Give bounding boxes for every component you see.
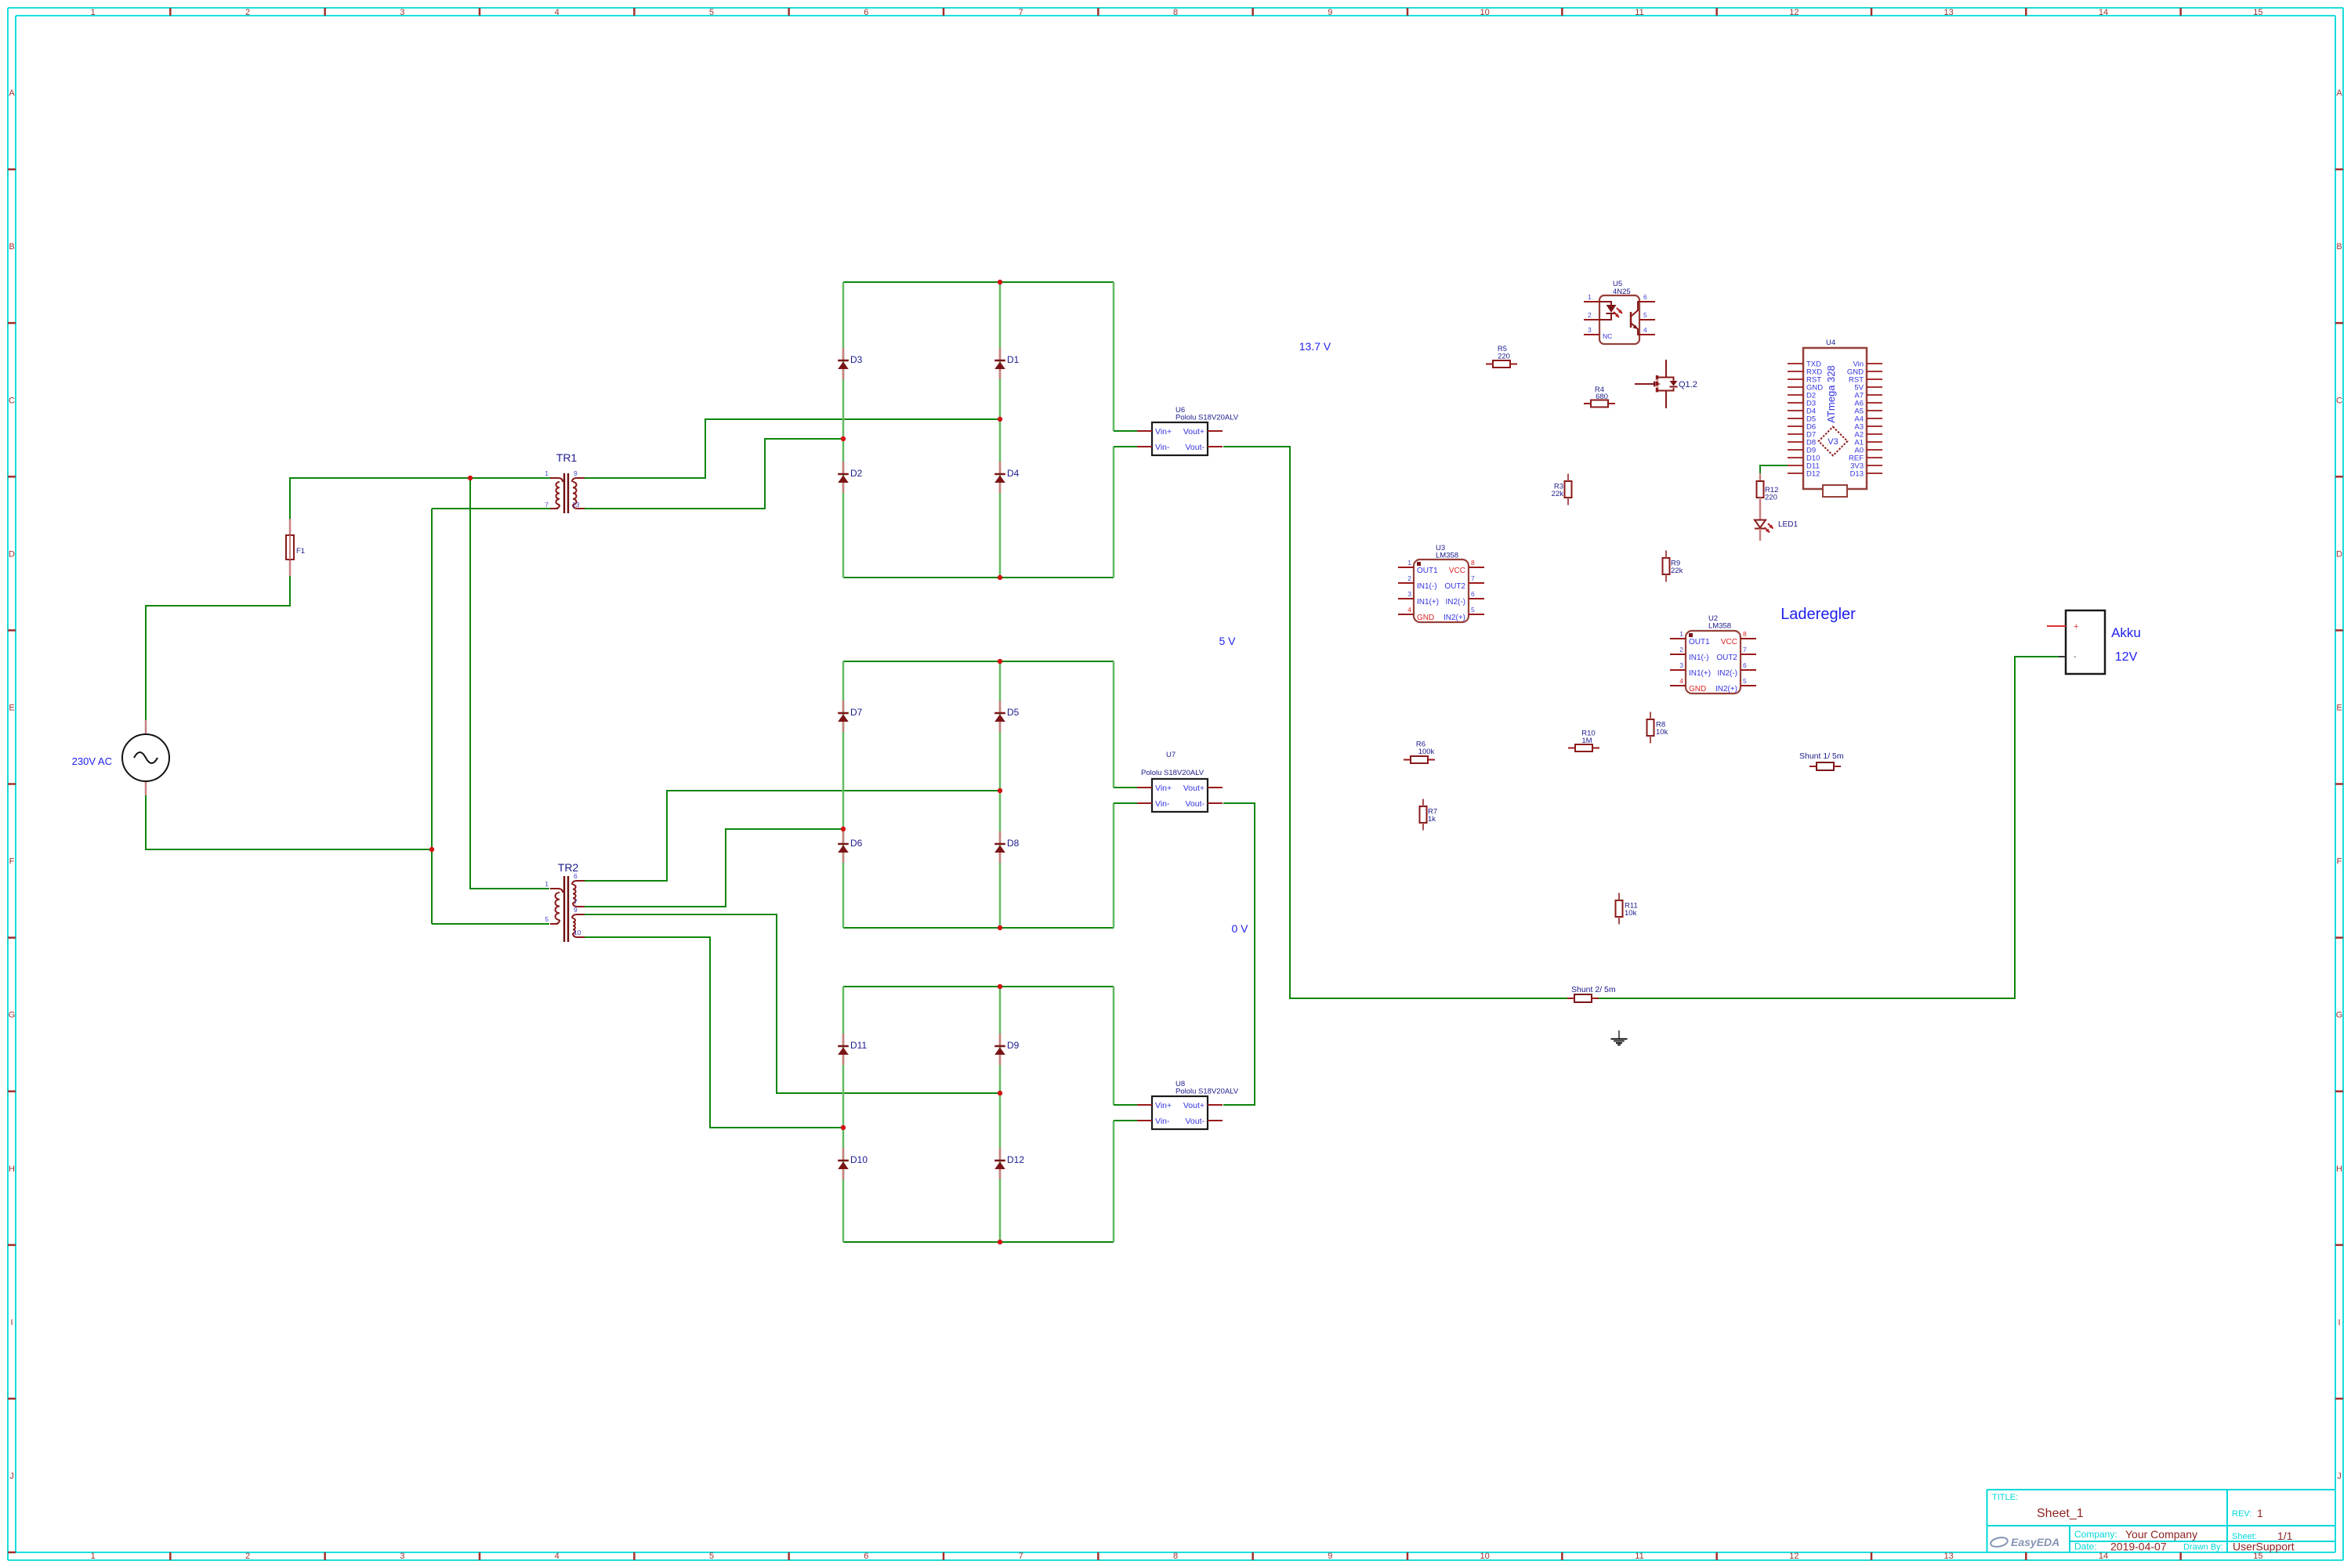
svg-text:7: 7 (1019, 1552, 1023, 1561)
svg-text:230V AC: 230V AC (72, 755, 112, 767)
svg-text:LED1: LED1 (1778, 520, 1798, 529)
svg-text:11: 11 (1635, 8, 1643, 17)
svg-text:Company:: Company: (2074, 1529, 2117, 1540)
svg-text:D: D (2336, 549, 2342, 559)
svg-text:C: C (9, 396, 15, 405)
svg-text:11: 11 (1635, 1552, 1643, 1561)
svg-text:14: 14 (2099, 1552, 2108, 1561)
svg-text:U7: U7 (1166, 751, 1175, 759)
svg-text:8: 8 (1173, 8, 1178, 17)
svg-text:D12: D12 (1806, 470, 1820, 479)
svg-text:Pololu S18V20ALV: Pololu S18V20ALV (1141, 769, 1204, 777)
svg-text:G: G (2336, 1011, 2343, 1020)
svg-text:D10: D10 (850, 1154, 868, 1165)
svg-text:H: H (2336, 1164, 2342, 1174)
svg-text:15: 15 (2253, 1552, 2262, 1561)
svg-text:U4: U4 (1826, 339, 1835, 347)
svg-text:D11: D11 (850, 1040, 867, 1051)
svg-text:5 V: 5 V (1219, 635, 1236, 647)
svg-text:F1: F1 (296, 547, 305, 556)
svg-text:D12: D12 (1007, 1154, 1024, 1165)
svg-text:-: - (2074, 653, 2076, 661)
svg-text:22k: 22k (1671, 567, 1683, 575)
svg-text:5: 5 (1471, 606, 1475, 614)
svg-text:Vout-: Vout- (1185, 1117, 1204, 1126)
svg-text:D7: D7 (850, 707, 863, 718)
svg-text:B: B (9, 242, 14, 252)
svg-text:13: 13 (1944, 1552, 1954, 1561)
svg-text:5: 5 (1743, 677, 1747, 685)
svg-text:IN2(+): IN2(+) (1715, 685, 1737, 693)
svg-text:2: 2 (245, 1552, 250, 1561)
svg-text:LM358: LM358 (1436, 552, 1458, 560)
svg-text:OUT1: OUT1 (1689, 638, 1710, 646)
svg-text:Vout-: Vout- (1185, 799, 1204, 809)
svg-text:D9: D9 (1007, 1040, 1020, 1051)
svg-text:IN2(-): IN2(-) (1717, 669, 1737, 678)
svg-text:9: 9 (1328, 1552, 1332, 1561)
svg-text:NC: NC (1603, 332, 1612, 340)
svg-text:1: 1 (2257, 1507, 2263, 1519)
svg-text:Laderegler: Laderegler (1780, 606, 1856, 623)
svg-text:7: 7 (1471, 574, 1475, 582)
svg-text:4: 4 (555, 1552, 560, 1561)
svg-text:ATmega 328: ATmega 328 (1825, 365, 1837, 422)
svg-text:LM358: LM358 (1708, 622, 1731, 631)
svg-text:14: 14 (2099, 8, 2108, 17)
svg-text:13: 13 (572, 501, 580, 509)
svg-text:OUT2: OUT2 (1716, 654, 1737, 662)
svg-text:6: 6 (864, 8, 868, 17)
svg-text:12: 12 (1789, 8, 1799, 17)
svg-text:4N25: 4N25 (1613, 288, 1631, 296)
svg-text:GND: GND (1417, 614, 1434, 622)
svg-text:3: 3 (1679, 661, 1683, 669)
svg-text:5: 5 (709, 1552, 714, 1561)
svg-text:D4: D4 (1007, 468, 1020, 479)
svg-text:E: E (2336, 703, 2342, 712)
svg-text:6: 6 (1643, 293, 1647, 301)
svg-text:I: I (2338, 1318, 2340, 1327)
svg-text:F: F (2337, 857, 2342, 867)
svg-text:4: 4 (555, 8, 560, 17)
svg-text:D6: D6 (850, 838, 863, 849)
svg-text:UserSupport: UserSupport (2233, 1541, 2295, 1553)
svg-text:8: 8 (1743, 630, 1747, 638)
svg-text:D2: D2 (850, 468, 863, 479)
svg-text:IN1(+): IN1(+) (1417, 598, 1439, 607)
svg-text:6: 6 (1743, 661, 1747, 669)
svg-text:Pololu S18V20ALV: Pololu S18V20ALV (1175, 414, 1239, 422)
svg-text:D: D (9, 549, 15, 559)
svg-text:OUT1: OUT1 (1417, 567, 1438, 575)
svg-text:Vout+: Vout+ (1183, 1101, 1204, 1110)
svg-text:220: 220 (1498, 353, 1510, 361)
svg-text:7: 7 (1743, 646, 1747, 654)
svg-text:7: 7 (574, 898, 578, 906)
svg-text:Vin-: Vin- (1155, 799, 1170, 809)
svg-text:1: 1 (1407, 559, 1411, 567)
svg-text:3: 3 (1588, 326, 1592, 334)
svg-text:D1: D1 (1007, 354, 1020, 365)
svg-text:0 V: 0 V (1231, 922, 1248, 935)
svg-text:+: + (2074, 622, 2078, 632)
svg-text:B: B (2336, 242, 2342, 252)
svg-text:Vin+: Vin+ (1155, 427, 1172, 436)
svg-text:IN1(+): IN1(+) (1689, 669, 1711, 678)
svg-text:1k: 1k (1428, 815, 1436, 824)
svg-text:Pololu S18V20ALV: Pololu S18V20ALV (1175, 1088, 1239, 1096)
svg-text:D8: D8 (1007, 838, 1020, 849)
svg-text:Akku: Akku (2111, 625, 2141, 640)
svg-text:Vin-: Vin- (1155, 443, 1170, 452)
svg-text:VCC: VCC (1721, 638, 1737, 646)
svg-text:Sheet_1: Sheet_1 (2037, 1507, 2084, 1520)
svg-text:VCC: VCC (1449, 567, 1465, 575)
svg-text:Vout-: Vout- (1185, 443, 1204, 452)
svg-text:4: 4 (1407, 606, 1411, 614)
svg-text:6: 6 (864, 1552, 868, 1561)
svg-text:C: C (2336, 396, 2342, 405)
svg-text:4: 4 (1643, 326, 1647, 334)
svg-text:Your Company: Your Company (2125, 1528, 2197, 1541)
svg-text:1: 1 (91, 8, 96, 17)
svg-text:12: 12 (1789, 1552, 1799, 1561)
svg-text:680: 680 (1596, 393, 1608, 401)
svg-text:Vin+: Vin+ (1155, 1101, 1172, 1110)
svg-text:IN1(-): IN1(-) (1417, 582, 1437, 591)
svg-text:Shunt 2/ 5m: Shunt 2/ 5m (1571, 985, 1616, 994)
svg-text:TITLE:: TITLE: (1992, 1493, 2018, 1502)
svg-text:A: A (2336, 89, 2342, 98)
svg-text:10: 10 (1480, 8, 1490, 17)
svg-text:3: 3 (400, 1552, 404, 1561)
svg-text:E: E (9, 703, 14, 712)
svg-text:7: 7 (1019, 8, 1023, 17)
svg-text:D3: D3 (850, 354, 863, 365)
svg-text:A: A (9, 89, 15, 98)
svg-text:1: 1 (545, 880, 549, 888)
svg-text:8: 8 (1471, 559, 1475, 567)
svg-text:15: 15 (2253, 8, 2262, 17)
svg-text:V3: V3 (1828, 437, 1838, 447)
svg-text:10k: 10k (1625, 909, 1637, 918)
svg-text:Date:: Date: (2074, 1541, 2097, 1552)
svg-text:5: 5 (545, 915, 549, 923)
svg-text:TR1: TR1 (556, 451, 578, 464)
svg-text:Drawn By:: Drawn By: (2183, 1543, 2223, 1552)
svg-text:H: H (9, 1164, 15, 1174)
svg-text:Q1.2: Q1.2 (1679, 380, 1697, 389)
svg-text:12V: 12V (2115, 650, 2138, 664)
svg-text:IN2(+): IN2(+) (1444, 614, 1465, 622)
svg-text:J: J (9, 1472, 14, 1481)
svg-text:2: 2 (1679, 646, 1683, 654)
svg-text:1: 1 (1588, 293, 1592, 301)
svg-text:Vin-: Vin- (1155, 1117, 1170, 1126)
svg-text:7: 7 (545, 501, 549, 509)
svg-text:100k: 100k (1418, 748, 1435, 756)
svg-text:D13: D13 (1850, 470, 1864, 479)
svg-text:G: G (9, 1011, 16, 1020)
svg-text:9: 9 (574, 469, 578, 477)
svg-text:9: 9 (574, 906, 578, 914)
svg-text:Vin+: Vin+ (1155, 784, 1172, 793)
svg-text:10k: 10k (1656, 728, 1668, 737)
svg-text:6: 6 (574, 872, 578, 880)
svg-text:10: 10 (574, 929, 581, 936)
svg-text:3: 3 (1407, 590, 1411, 598)
svg-text:REV:: REV: (2232, 1509, 2251, 1519)
svg-text:1: 1 (1679, 630, 1683, 638)
svg-text:13.7 V: 13.7 V (1299, 340, 1331, 353)
svg-text:4: 4 (1679, 677, 1683, 685)
svg-text:OUT2: OUT2 (1444, 582, 1465, 591)
svg-text:9: 9 (1328, 8, 1332, 17)
svg-text:Vout+: Vout+ (1183, 784, 1204, 793)
svg-text:3: 3 (400, 8, 404, 17)
svg-text:IN1(-): IN1(-) (1689, 654, 1709, 662)
svg-text:5: 5 (1643, 311, 1647, 319)
svg-text:1: 1 (545, 469, 549, 477)
svg-text:F: F (9, 857, 15, 867)
svg-text:Shunt 1/ 5m: Shunt 1/ 5m (1799, 751, 1844, 761)
svg-text:2: 2 (1407, 574, 1411, 582)
svg-text:10: 10 (1480, 1552, 1490, 1561)
svg-text:5: 5 (709, 8, 714, 17)
svg-text:220: 220 (1765, 494, 1777, 502)
svg-text:1: 1 (91, 1552, 96, 1561)
svg-text:6: 6 (1471, 590, 1475, 598)
svg-text:J: J (2337, 1472, 2342, 1481)
svg-text:2: 2 (1588, 311, 1592, 319)
svg-text:D5: D5 (1007, 707, 1020, 718)
svg-text:Vout+: Vout+ (1183, 427, 1204, 436)
svg-text:2019-04-07: 2019-04-07 (2110, 1541, 2167, 1553)
svg-text:8: 8 (1173, 1552, 1178, 1561)
svg-text:EasyEDA: EasyEDA (2011, 1536, 2059, 1548)
svg-text:1M: 1M (1581, 737, 1592, 745)
svg-text:13: 13 (1944, 8, 1954, 17)
svg-text:I: I (10, 1318, 13, 1327)
svg-text:GND: GND (1689, 685, 1706, 693)
svg-text:22k: 22k (1552, 490, 1564, 498)
svg-text:IN2(-): IN2(-) (1445, 598, 1465, 607)
svg-text:2: 2 (245, 8, 250, 17)
